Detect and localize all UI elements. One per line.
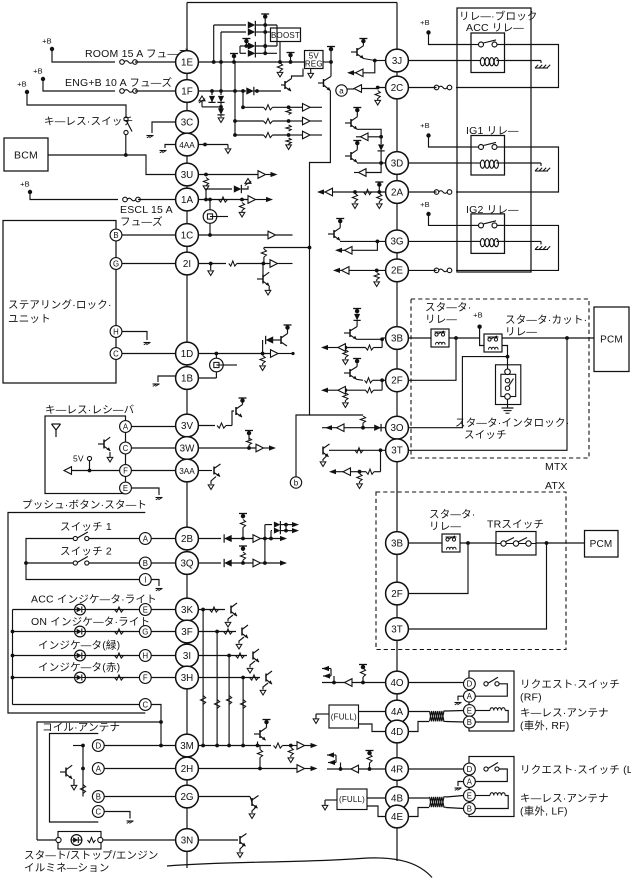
wire	[357, 337, 386, 341]
wire coil ground	[505, 241, 542, 244]
wire	[13, 655, 140, 657]
twisted pair RF	[407, 711, 463, 732]
label request switch LF	[520, 764, 631, 776]
power tap diode	[353, 309, 361, 327]
svg-text:D: D	[95, 741, 101, 750]
svg-text:スタ—ト/ストップ/エンジン: スタ—ト/ストップ/エンジン	[24, 850, 159, 862]
wire 2F branch	[408, 338, 456, 380]
connector pin 1B	[176, 367, 199, 390]
wire 3T to PCM node	[408, 338, 567, 450]
label starter cut relay	[505, 314, 587, 338]
terminal E	[464, 790, 476, 802]
wire	[135, 90, 176, 92]
svg-text:リクエスト·スイッチ (LF): リクエスト·スイッチ (LF)	[520, 764, 631, 776]
connector pin 1C	[176, 224, 199, 247]
svg-text:4AA: 4AA	[179, 141, 195, 150]
wire row	[198, 629, 236, 634]
svg-text:5V: 5V	[73, 454, 84, 464]
connector pin 3W	[176, 437, 199, 460]
wire diode row 1	[214, 21, 277, 29]
resistor	[246, 438, 251, 448]
power tap	[287, 53, 295, 63]
switch 1	[73, 532, 89, 541]
svg-text:3J: 3J	[392, 56, 402, 67]
transistor	[266, 671, 272, 684]
component relay block box	[457, 8, 531, 272]
page arrow	[374, 282, 380, 287]
terminal B	[464, 803, 476, 815]
wire body curve	[167, 858, 432, 878]
terminal A	[464, 776, 476, 788]
wire lamp feed	[37, 722, 161, 840]
wire	[52, 49, 115, 62]
svg-text:E: E	[143, 605, 148, 614]
page arrows	[322, 666, 334, 683]
wire 2A row	[328, 189, 386, 194]
terminal C	[139, 699, 151, 711]
wire fuse to 2A	[408, 191, 436, 193]
wire 4R to D	[408, 768, 463, 770]
wire 1A row	[198, 196, 273, 204]
wire	[429, 214, 472, 225]
wire A to 2B	[151, 538, 175, 540]
svg-text:BOOST: BOOST	[271, 31, 300, 40]
wire 3AA row	[198, 470, 212, 472]
resistor	[203, 178, 208, 186]
wire	[429, 136, 472, 148]
wire 4O row	[322, 681, 386, 685]
terminal E	[120, 482, 132, 494]
svg-text:スイッチ 2: スイッチ 2	[60, 546, 112, 558]
wire 3N row	[198, 839, 238, 841]
transistor (3M)	[254, 720, 271, 746]
svg-text:D: D	[467, 680, 473, 689]
label starter relay (ATX)	[429, 509, 476, 533]
label IG2 relay	[466, 204, 519, 216]
ground (IG2 relay)	[535, 246, 550, 249]
diode	[217, 91, 224, 109]
wire 2I row	[198, 260, 292, 268]
svg-text:2F: 2F	[391, 589, 402, 600]
power tap	[261, 14, 269, 25]
svg-text:3W: 3W	[180, 443, 195, 454]
wire	[507, 399, 509, 408]
terminal G	[139, 626, 151, 638]
svg-text:A: A	[123, 422, 129, 431]
wire REG out	[323, 60, 333, 64]
wire 4AA stub left	[165, 145, 176, 149]
wire IG2 contact out	[456, 225, 559, 270]
svg-text:2I: 2I	[183, 259, 191, 270]
svg-text:(RF): (RF)	[520, 692, 542, 704]
component BCM box	[4, 138, 48, 171]
wire	[362, 677, 364, 683]
power tap	[366, 751, 374, 756]
svg-text:4E: 4E	[391, 812, 403, 823]
wire arrow row	[321, 339, 382, 351]
svg-text:1E: 1E	[181, 57, 193, 68]
svg-text:(車外, LF): (車外, LF)	[520, 805, 568, 818]
svg-text:3O: 3O	[390, 423, 403, 434]
connector pin 4B	[386, 787, 409, 810]
page arrow	[203, 186, 209, 191]
resistor	[115, 675, 124, 680]
svg-text:スイッチ 1: スイッチ 1	[60, 521, 112, 533]
antenna coil LF	[475, 793, 508, 809]
connector pin 3N	[176, 829, 199, 852]
svg-text:ESCL 15 A: ESCL 15 A	[120, 204, 173, 216]
component request switch LF box	[469, 757, 514, 817]
power +B (ENG+B fuse)	[33, 67, 45, 82]
wire row	[198, 675, 260, 680]
resistor vertical	[286, 109, 291, 145]
svg-text:ACC リレ—: ACC リレ—	[466, 22, 524, 34]
svg-text:スタ—タ·カット·: スタ—タ·カット·	[505, 314, 587, 326]
wire 3O row	[322, 424, 386, 432]
label E indicator	[31, 594, 157, 606]
wire 3G coil	[408, 240, 471, 242]
component TR switch	[496, 532, 536, 556]
svg-text:2E: 2E	[391, 266, 403, 277]
svg-text:3N: 3N	[181, 835, 194, 846]
svg-text:3U: 3U	[181, 170, 194, 181]
wire 2H row	[198, 765, 317, 773]
antenna	[52, 424, 61, 437]
terminal C	[120, 442, 132, 454]
wire B to 1C	[122, 234, 176, 236]
page arrow	[225, 149, 231, 154]
component 5V REG box	[305, 51, 324, 69]
resistor	[115, 607, 124, 612]
diode	[378, 137, 385, 163]
svg-text:4R: 4R	[391, 764, 404, 775]
wire	[429, 33, 472, 45]
terminal I	[139, 574, 151, 586]
label ENG+B 10 A fuse	[65, 76, 172, 89]
transistor (3B)	[344, 327, 357, 340]
power +B (IG1 relay)	[420, 121, 431, 138]
wire three-row feeds	[233, 91, 237, 137]
signal arrow	[351, 765, 359, 773]
svg-text:(FULL): (FULL)	[331, 713, 357, 722]
wire lamp to 3N	[103, 839, 176, 841]
transistor (3V)	[236, 398, 247, 417]
wire	[13, 677, 140, 679]
keyless switch	[124, 117, 132, 135]
component push-button start box	[8, 513, 145, 714]
page arrow (up)	[245, 179, 251, 186]
svg-text:PCM: PCM	[600, 335, 623, 346]
label starter relay (MTX)	[425, 302, 472, 326]
wire FULL to 4A	[359, 711, 386, 713]
component keyless receiver box	[45, 416, 126, 494]
transistor (3D lower)	[345, 141, 361, 163]
wire diode row 4	[240, 49, 277, 57]
connector pin 3F	[176, 620, 199, 643]
connector pin 4E	[386, 805, 409, 828]
ground	[156, 589, 163, 591]
svg-text:B: B	[113, 231, 118, 240]
diode	[208, 89, 215, 103]
ground	[455, 703, 462, 705]
terminal C	[92, 806, 104, 818]
connector pin 2C	[386, 76, 409, 99]
svg-text:リレ—·ブロック: リレ—·ブロック	[459, 10, 538, 23]
wire 3B to relay	[408, 542, 442, 544]
page arrow	[352, 204, 382, 209]
terminal E	[139, 604, 151, 616]
wire	[449, 336, 480, 340]
transistor (3AA)	[214, 464, 221, 477]
resistor	[240, 552, 245, 563]
wire vertical	[276, 25, 278, 46]
resistor (2I to b-line)	[261, 246, 311, 264]
svg-text:2H: 2H	[181, 764, 194, 775]
svg-text:G: G	[142, 627, 148, 636]
LED indicator	[75, 604, 86, 615]
resistor (3M-2H link)	[257, 746, 262, 769]
svg-text:キ—レス·アンテナ: キ—レス·アンテナ	[520, 793, 609, 805]
svg-text:(FULL): (FULL)	[339, 795, 365, 804]
transistor (3J)	[351, 39, 375, 61]
wire	[37, 839, 56, 841]
terminal F	[139, 672, 151, 684]
terminal B	[110, 229, 122, 241]
svg-text:リクエスト·スイッチ: リクエスト·スイッチ	[520, 679, 620, 691]
section MTX dashed box	[411, 299, 589, 458]
wire E to bus	[151, 609, 175, 611]
ground	[127, 821, 134, 823]
svg-text:A: A	[143, 534, 149, 543]
component illumination lamp box	[58, 832, 101, 850]
page arrow	[343, 403, 349, 408]
wire fuse to 2E	[408, 269, 436, 271]
svg-text:E: E	[467, 706, 472, 715]
svg-text:1D: 1D	[181, 349, 194, 360]
component BOOST box	[271, 28, 301, 42]
svg-text:リレ—: リレ—	[425, 314, 457, 326]
ground	[147, 136, 154, 138]
svg-text:3B: 3B	[391, 538, 403, 549]
wire 3M row	[198, 742, 317, 750]
connector pin 3M	[176, 734, 199, 757]
svg-text:I: I	[144, 575, 146, 584]
svg-text:3T: 3T	[391, 446, 402, 457]
wire vertical	[219, 32, 223, 93]
wire 3T row	[329, 448, 386, 453]
component starter interlock switch	[496, 365, 521, 405]
label keyless receiver	[45, 404, 135, 416]
svg-text:ユニット: ユニット	[8, 313, 51, 325]
label push button start	[22, 499, 147, 511]
connector pin 4D	[386, 720, 409, 743]
wire FULL to 4D	[359, 724, 386, 732]
wire 1B ground stub	[158, 376, 176, 382]
page arrow	[218, 118, 224, 123]
svg-text:3D: 3D	[391, 158, 404, 169]
connector pin 4AA	[176, 133, 199, 156]
power 5V tap	[87, 456, 91, 472]
page arrow	[343, 360, 349, 365]
page arrow	[239, 212, 245, 217]
connector pin 3G	[386, 230, 409, 253]
wire arrow row	[321, 380, 382, 394]
terminal B	[139, 557, 151, 569]
wire diode pair rows	[265, 521, 299, 563]
node b	[290, 477, 301, 488]
wire	[460, 541, 496, 545]
terminal G	[110, 258, 122, 270]
terminal B	[92, 791, 104, 803]
wire H ground	[122, 332, 147, 341]
wire A to 3V	[131, 426, 175, 428]
fuse (ACC)	[434, 85, 452, 90]
wire	[135, 61, 176, 63]
component request switch RF box	[469, 671, 514, 731]
wire	[43, 79, 115, 91]
label G indicator	[31, 616, 150, 628]
signal arrow	[354, 163, 381, 176]
wire	[357, 129, 383, 138]
diode (zener)	[217, 107, 224, 117]
transistor	[253, 649, 259, 662]
resistor	[357, 474, 362, 484]
svg-text:1C: 1C	[181, 230, 194, 241]
wire 1F cluster	[198, 87, 281, 95]
transistor (3T)	[323, 444, 330, 457]
wire staircase to b	[296, 91, 330, 477]
wire diode row 3	[240, 42, 277, 50]
svg-text:+B: +B	[42, 37, 52, 46]
label request switch RF	[520, 679, 620, 704]
transistor (receiver)	[98, 437, 113, 462]
page arrow	[286, 144, 292, 150]
terminal B	[464, 716, 476, 728]
page arrow (up)	[199, 96, 212, 107]
svg-text:+B: +B	[420, 18, 430, 27]
connector pin 3V	[176, 414, 199, 437]
svg-text:C: C	[95, 807, 101, 816]
relay starter cut	[484, 334, 502, 352]
wire C to 3M via junction	[151, 705, 163, 748]
svg-text:b: b	[294, 478, 299, 487]
page arrow	[322, 800, 337, 810]
wire F to bus	[151, 677, 175, 679]
wire row	[198, 607, 225, 612]
wire 3W row	[198, 444, 276, 452]
wire B to 3Q	[151, 562, 175, 564]
terminal F	[120, 465, 132, 477]
resistor verticals	[201, 696, 246, 709]
terminal D	[464, 678, 476, 690]
svg-text:+B: +B	[17, 80, 27, 89]
resistor rows to arrows	[243, 104, 322, 112]
svg-text:リレ—: リレ—	[505, 326, 537, 338]
svg-text:BCM: BCM	[14, 150, 38, 162]
wire vertical	[234, 62, 236, 91]
wire G to bus	[151, 631, 175, 633]
wire 3U row	[198, 171, 277, 179]
connector pin 2I	[176, 252, 199, 275]
LED indicator	[75, 650, 86, 661]
wire 4O to D	[408, 682, 463, 684]
connector pin 3U	[176, 163, 199, 186]
power tap	[230, 54, 238, 64]
svg-text:F: F	[123, 466, 128, 475]
svg-text:a: a	[339, 86, 344, 95]
svg-text:3Q: 3Q	[180, 558, 193, 569]
label TR switch	[487, 519, 544, 531]
wire	[357, 378, 386, 383]
driver (1A-1C)	[203, 198, 228, 237]
wire vertical	[239, 46, 241, 53]
wire 3T branch (ATX)	[408, 543, 546, 629]
wire BOOST stem	[278, 42, 282, 64]
svg-text:2G: 2G	[180, 792, 193, 803]
wire A to 2H	[104, 768, 175, 770]
signal arrow	[356, 133, 381, 141]
LED indicator	[75, 626, 86, 637]
wire F to 3AA	[66, 470, 176, 472]
svg-text:ROOM 15 A フュ—ズ: ROOM 15 A フュ—ズ	[85, 47, 189, 60]
label switch 1	[60, 521, 112, 533]
resistor	[375, 91, 380, 99]
page arrow	[375, 99, 381, 106]
terminal H	[139, 650, 151, 662]
LED illumination	[71, 835, 82, 846]
wire vertical	[212, 25, 216, 64]
fuse ESCL 15A	[123, 197, 141, 202]
transistor (REG out)	[318, 77, 331, 91]
svg-text:1B: 1B	[181, 373, 193, 384]
request switch RF	[484, 677, 499, 686]
wire	[13, 609, 140, 611]
terminal A	[464, 690, 476, 702]
page arrow	[247, 661, 255, 673]
svg-text:+B: +B	[473, 311, 483, 320]
svg-text:プッシュ·ボタン·スタ—ト: プッシュ·ボタン·スタ—ト	[22, 499, 147, 511]
transistor (1F line)	[281, 69, 303, 92]
connector pin 2F	[386, 369, 409, 392]
power +B (IG2 relay)	[420, 200, 431, 216]
wire	[241, 91, 245, 109]
wire	[269, 525, 299, 541]
signal arrow	[335, 241, 377, 254]
terminal A	[92, 763, 104, 775]
lamp contact	[98, 837, 103, 842]
page arrow (REG)	[308, 69, 314, 79]
power +B (ACC relay)	[420, 18, 431, 35]
svg-text:C: C	[113, 349, 119, 358]
svg-text:3B: 3B	[391, 333, 403, 344]
page arrow	[236, 637, 244, 649]
resistor	[343, 350, 348, 360]
label ESCL 15 A fuse	[120, 204, 173, 228]
svg-text:D: D	[467, 765, 473, 774]
connector pin 2G	[176, 785, 199, 808]
transistor (2I)	[257, 264, 271, 296]
svg-text:スイッチ: スイッチ	[464, 429, 507, 441]
wire 3J left	[347, 59, 386, 77]
power tap	[242, 39, 250, 48]
resistor	[80, 785, 85, 794]
svg-text:スタ—タ·: スタ—タ·	[429, 509, 476, 521]
svg-text:A: A	[467, 777, 473, 786]
power tap	[327, 47, 335, 63]
transistor (3G)	[328, 219, 344, 241]
label H indicator	[38, 639, 120, 652]
resistor	[260, 356, 265, 366]
